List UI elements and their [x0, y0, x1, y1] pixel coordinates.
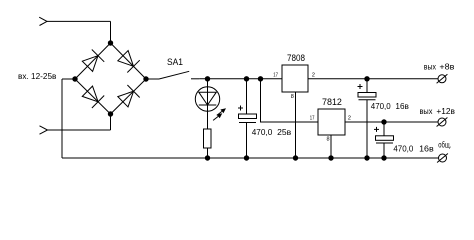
- wire top input horizontal: [47, 20, 111, 22]
- svg-text:470,0: 470,0: [393, 144, 413, 154]
- node bridge top: [108, 40, 113, 45]
- wire bottom input horizontal: [48, 129, 111, 131]
- svg-text:7808: 7808: [287, 53, 305, 63]
- LED arrow 2: [213, 113, 222, 120]
- capacitor C1: [239, 79, 257, 158]
- op-amp DA2 regulator 7812: [318, 109, 345, 135]
- node C3 top: [381, 119, 386, 124]
- wire left rail vertical: [61, 79, 63, 158]
- output terminal common: [437, 154, 448, 163]
- node bridge left: [72, 76, 77, 81]
- node LED rail: [205, 155, 210, 160]
- svg-text:8: 8: [327, 136, 330, 142]
- svg-text:SA1: SA1: [167, 57, 183, 67]
- switch SA1: [159, 71, 199, 79]
- svg-text:17: 17: [310, 115, 315, 121]
- capacitor C3: [376, 122, 394, 158]
- node C2 top: [364, 76, 369, 81]
- wire bottom rail: [62, 157, 439, 159]
- diode VD3 bottom-left: [75, 79, 111, 114]
- op-amp DA1 regulator 7808: [282, 65, 308, 92]
- wire DA1 ground: [295, 92, 297, 158]
- LED arrow 1: [217, 108, 226, 115]
- C2 plus sign: [358, 84, 363, 89]
- node bridge bottom: [108, 111, 113, 116]
- wire bridge left to rail: [62, 78, 75, 80]
- svg-text:вх. 12-25в: вх. 12-25в: [18, 71, 57, 81]
- wire DA2 ground: [330, 135, 332, 158]
- svg-text:470,0: 470,0: [252, 127, 273, 137]
- LED HL1: [195, 87, 219, 111]
- node C1 rail: [244, 155, 249, 160]
- wire bridge right to switch: [146, 78, 159, 80]
- node C1 top: [244, 76, 249, 81]
- wire DA2 output: [345, 121, 438, 123]
- node C3 rail: [381, 155, 386, 160]
- node DA2 ground rail: [328, 155, 333, 160]
- C3 plus sign: [374, 127, 379, 132]
- diode VD4 bottom-right: [111, 79, 147, 114]
- output terminal +12в: [437, 118, 448, 127]
- input terminal top: [39, 17, 47, 25]
- node DA1 ground rail: [293, 155, 298, 160]
- svg-text:вых+12в: вых+12в: [420, 106, 456, 116]
- svg-text:16в: 16в: [395, 101, 409, 111]
- output terminal +8в: [437, 74, 448, 83]
- capacitor C2: [358, 79, 376, 158]
- svg-text:2: 2: [348, 115, 351, 121]
- wire LED branch upper: [207, 79, 209, 129]
- svg-text:вых+8в: вых+8в: [424, 61, 455, 71]
- svg-text:17: 17: [273, 73, 278, 79]
- diode VD2 top-right: [111, 43, 147, 79]
- wire DA1 output: [308, 78, 438, 80]
- wire switch to regulator input: [199, 78, 282, 80]
- input terminal bottom: [40, 126, 48, 134]
- C1 plus sign: [238, 106, 243, 111]
- wire top input vertical: [110, 21, 112, 43]
- svg-text:2: 2: [312, 73, 315, 79]
- node bridge right: [143, 76, 148, 81]
- svg-text:16в: 16в: [419, 144, 434, 154]
- diode VD1 top-left: [75, 43, 111, 79]
- svg-text:25в: 25в: [277, 127, 292, 137]
- wire resistor to rail: [207, 148, 209, 158]
- svg-text:8: 8: [291, 94, 294, 100]
- svg-text:470,0: 470,0: [371, 101, 391, 111]
- svg-text:7812: 7812: [322, 97, 342, 107]
- resistor R1: [204, 129, 212, 148]
- node C2 rail: [364, 155, 369, 160]
- svg-text:общ.: общ.: [438, 140, 451, 150]
- wire branch down to DA2: [261, 79, 319, 122]
- node branch to DA2: [258, 76, 263, 81]
- node LED branch: [205, 76, 210, 81]
- wire bottom input vertical: [110, 114, 112, 130]
